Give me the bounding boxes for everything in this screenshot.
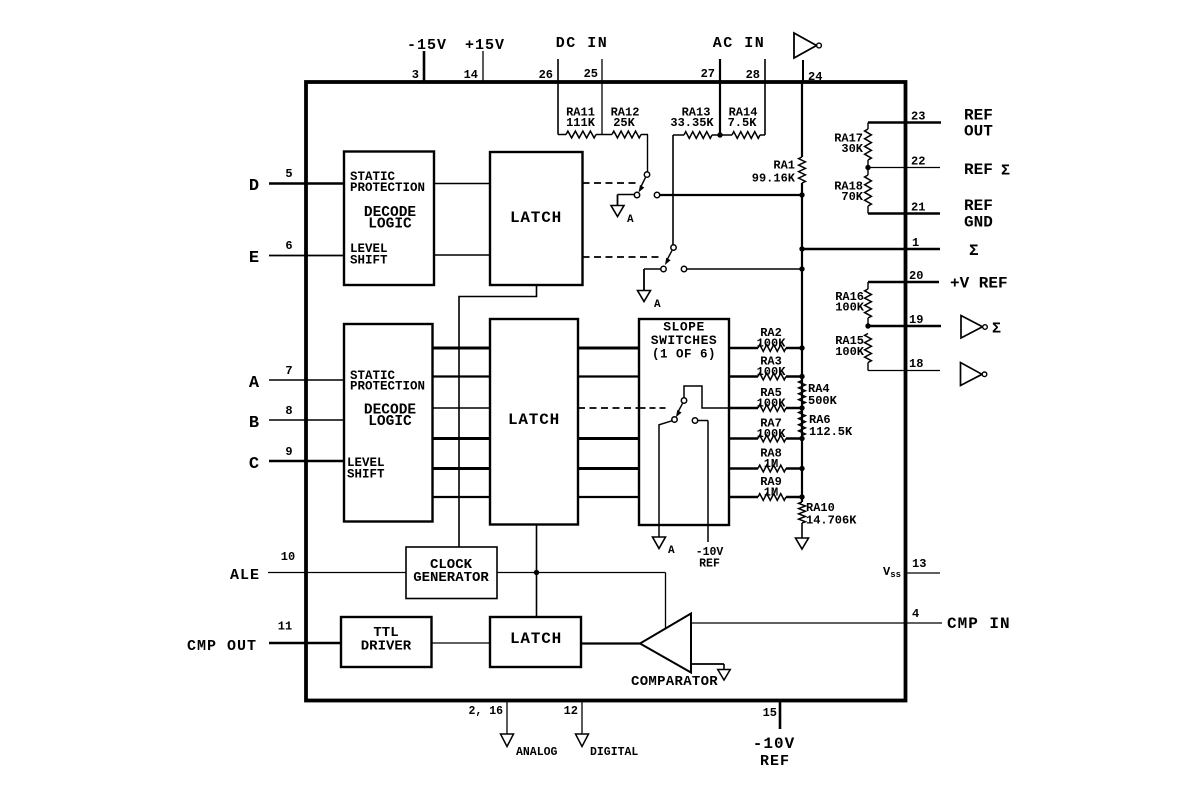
svg-text:DRIVER: DRIVER: [361, 639, 412, 655]
comparator U9: [640, 614, 691, 673]
label REF sigma: [964, 161, 1010, 180]
svg-text:9: 9: [285, 445, 292, 459]
IC boundary box: [306, 82, 906, 701]
label LEVEL SHIFT (U1): [350, 242, 388, 268]
svg-text:112.5K: 112.5K: [809, 425, 853, 439]
label RA17 30K: [834, 132, 864, 157]
switch S1 top terminal: [644, 172, 649, 177]
svg-text:18: 18: [909, 357, 923, 371]
svg-text:D: D: [249, 177, 259, 196]
svg-text:11: 11: [278, 620, 292, 634]
label RA1 99.16K: [752, 159, 796, 186]
svg-text:A: A: [249, 374, 260, 393]
resistor RA18 70K: [865, 168, 872, 214]
buffer amplifier above pin 24: [794, 33, 821, 58]
svg-text:6: 6: [285, 239, 292, 253]
svg-text:23: 23: [911, 110, 925, 124]
svg-text:REF: REF: [964, 197, 993, 215]
switch S2 pole terminal: [661, 266, 666, 271]
svg-text:AC IN: AC IN: [713, 35, 766, 52]
svg-text:2, 16: 2, 16: [468, 705, 503, 718]
wire summing bus main segment: [801, 183, 803, 502]
label -10V REF (slope switches): [696, 546, 724, 571]
wire D decode to latch: [434, 183, 490, 185]
decode logic block U1 (D/E): [344, 152, 434, 286]
svg-text:ALE: ALE: [230, 567, 260, 584]
svg-text:28: 28: [746, 68, 760, 82]
label DECODE LOGIC (U3): [364, 403, 417, 431]
svg-text:33.35K: 33.35K: [670, 116, 714, 130]
slope switch pole terminal: [672, 417, 677, 422]
wire S1 output to summing bus: [660, 194, 802, 196]
ground arrow ANALOG: [501, 734, 514, 747]
svg-text:SHIFT: SHIFT: [347, 468, 385, 482]
junction node pin27 / RA13 / RA14: [717, 132, 722, 137]
wire latch U8 to comparator output: [581, 642, 640, 644]
pin 27 stub (AC IN): [719, 59, 721, 135]
svg-text:25K: 25K: [613, 116, 635, 130]
wire bit line 1 decode to latch U4: [433, 347, 491, 350]
label LEVEL SHIFT (U3): [347, 456, 385, 482]
label RA10 14.706K: [806, 501, 857, 528]
svg-text:E: E: [249, 249, 259, 268]
svg-text:100K: 100K: [757, 427, 787, 441]
resistor RA1 99.16K: [799, 157, 806, 183]
svg-text:LATCH: LATCH: [508, 411, 560, 429]
label RA7 100K: [757, 417, 787, 442]
ground arrow A (switch S1): [611, 206, 624, 217]
wire latch U2 to clock generator: [459, 285, 537, 547]
wire summing bus top segment: [801, 83, 803, 157]
slope switch top terminal: [681, 398, 686, 403]
wire slope switch pole to ground A: [659, 421, 672, 537]
svg-text:+V REF: +V REF: [950, 275, 1008, 293]
svg-text:14: 14: [464, 68, 478, 82]
wire comparator reference to ground: [691, 664, 724, 670]
svg-text:REF: REF: [964, 161, 993, 179]
junction node S1 line / summing bus: [799, 192, 804, 197]
wire bit line 4 latch U4 to slope switches: [578, 437, 639, 440]
label RA11 111K: [566, 106, 596, 131]
wire E decode to latch: [434, 254, 490, 256]
label -10V REF (pin 15): [753, 735, 795, 770]
slope switch right terminal: [692, 418, 697, 423]
svg-text:19: 19: [909, 313, 923, 327]
pin 21 wire (REF GND): [868, 212, 940, 215]
svg-text:Σ: Σ: [992, 321, 1001, 338]
switch S2 output terminal: [681, 266, 686, 271]
label RA16 100K: [835, 290, 865, 315]
svg-text:A: A: [627, 214, 634, 226]
svg-text:30K: 30K: [841, 142, 863, 156]
svg-text:100K: 100K: [757, 397, 787, 411]
pin 3 stub (-15V): [423, 51, 426, 83]
wire ALE inside to clock generator: [306, 572, 406, 574]
junction node RA9 / summing bus: [799, 494, 804, 499]
pin 9 wire (C input): [269, 460, 344, 463]
svg-text:12: 12: [564, 704, 578, 718]
label RA9 1M: [760, 475, 782, 500]
svg-text:25: 25: [584, 67, 598, 81]
latch block U2 (upper): [490, 152, 583, 285]
svg-text:111K: 111K: [566, 116, 596, 130]
svg-text:Σ: Σ: [1001, 163, 1010, 180]
resistor RA15 100K: [865, 334, 872, 371]
svg-text:1: 1: [912, 236, 919, 250]
svg-text:22: 22: [911, 155, 925, 169]
label RA12 25K: [611, 106, 640, 131]
junction node RA16/RA15: [865, 323, 870, 328]
label STATIC PROTECTION (U1): [350, 170, 425, 195]
pin 24 stub: [802, 60, 804, 83]
pin 26 stub (DC IN): [557, 59, 559, 135]
pin 23 wire (REF OUT): [868, 121, 941, 124]
svg-text:24: 24: [808, 70, 822, 84]
pin 14 stub (+15V): [482, 51, 484, 83]
label RA5 100K: [757, 386, 787, 411]
resistor RA2 100K: [729, 345, 802, 352]
switch S1 output terminal: [654, 192, 659, 197]
label STATIC PROTECTION (U3): [350, 369, 425, 394]
junction node S2 line / summing bus: [799, 266, 804, 271]
pin 19 wire: [868, 325, 941, 328]
label RA3 100K: [757, 355, 787, 380]
switch S1 lever: [639, 178, 646, 193]
label RA2 100K: [757, 326, 787, 351]
pin 28 stub (AC IN): [764, 59, 766, 135]
wire bit line 1 latch U4 to slope switches: [578, 347, 639, 350]
pin 2,16 stub (analog ground): [506, 702, 508, 734]
pin 22 wire (REF sigma): [868, 167, 940, 169]
wire S2 output to summing bus: [687, 268, 802, 270]
resistor RA7 100K: [729, 435, 802, 442]
resistor RA3 100K: [729, 373, 802, 380]
label REF GND: [964, 197, 993, 232]
svg-text:500K: 500K: [808, 394, 838, 408]
pin 15 stub (-10V REF): [779, 702, 782, 729]
resistor RA6 112.5K: [799, 411, 806, 436]
wire latch U4 to latch U8: [536, 525, 538, 618]
svg-text:LATCH: LATCH: [510, 209, 562, 227]
switch S1 pole terminal: [634, 192, 639, 197]
resistor RA5 100K: [729, 405, 802, 412]
buffer amplifier at pin 19: [961, 316, 987, 339]
svg-text:+15V: +15V: [465, 37, 505, 54]
svg-text:1M: 1M: [764, 457, 778, 471]
wire bit line 3 decode to latch U4: [433, 407, 491, 409]
svg-text:C: C: [249, 455, 259, 474]
svg-text:A: A: [668, 545, 675, 557]
ground arrow below RA10: [796, 538, 809, 549]
svg-text:13: 13: [912, 557, 926, 571]
junction node RA8 / summing bus: [799, 466, 804, 471]
pin 5 wire (D input): [269, 182, 344, 185]
label SLOPE SWITCHES (1 OF 6): [651, 320, 717, 362]
svg-text:-15V: -15V: [407, 37, 447, 54]
wire slope switch top terminal to RA5 line: [684, 386, 729, 408]
junction node RA5 / summing bus: [799, 405, 804, 410]
svg-text:REF: REF: [699, 558, 720, 571]
svg-text:SWITCHES: SWITCHES: [651, 333, 717, 348]
latch block U8 (lower): [490, 617, 581, 667]
label RA18 70K: [834, 180, 864, 205]
ground arrow DIGITAL: [576, 734, 589, 747]
junction node sigma / summing bus: [799, 246, 804, 251]
label RA8 1M: [760, 447, 782, 472]
wire bit line 2 decode to latch U4: [433, 375, 491, 377]
wire RA12 down to switch S1: [647, 135, 649, 173]
wire clock generator to comparator strobe: [497, 573, 666, 628]
pin 1 wire (sigma output): [802, 248, 940, 251]
svg-text:3: 3: [412, 68, 419, 82]
svg-text:DIGITAL: DIGITAL: [590, 746, 638, 759]
svg-text:10: 10: [281, 550, 295, 564]
dashed control wire inside slope switches: [640, 407, 668, 409]
svg-text:100K: 100K: [835, 345, 865, 359]
junction node RA17/RA18 (REF sigma): [865, 165, 870, 170]
resistor RA9 1M: [729, 494, 802, 501]
wire S2 pole to ground: [644, 269, 661, 291]
svg-text:100K: 100K: [757, 365, 787, 379]
label TTL DRIVER: [361, 625, 412, 655]
svg-text:(1 OF 6): (1 OF 6): [652, 348, 716, 362]
resistor RA13 33.35K: [673, 132, 720, 139]
svg-text:1M: 1M: [764, 486, 778, 500]
wire bit line 5 decode to latch U4: [433, 467, 491, 470]
label CLOCK GENERATOR: [413, 557, 489, 586]
latch block U4 (middle): [490, 319, 578, 525]
dashed control wire latch U2 to switch S2: [583, 256, 662, 258]
switch S2 lever: [665, 251, 672, 266]
label DECODE LOGIC (U1): [364, 205, 417, 233]
junction node RA7 / summing bus: [799, 436, 804, 441]
pin 20 wire (+V REF): [868, 281, 939, 284]
svg-text:70K: 70K: [841, 190, 863, 204]
svg-text:LOGIC: LOGIC: [368, 217, 412, 233]
buffer amplifier at pin 18: [961, 363, 987, 386]
svg-text:20: 20: [909, 269, 923, 283]
svg-text:GND: GND: [964, 214, 993, 232]
slope switch lever: [676, 404, 683, 418]
svg-text:8: 8: [285, 404, 292, 418]
pin 7 wire (A input): [269, 379, 344, 381]
pin 6 wire (E input): [269, 255, 344, 257]
svg-text:OUT: OUT: [964, 123, 993, 141]
svg-text:B: B: [249, 414, 259, 433]
switch S2 top terminal: [671, 245, 676, 250]
svg-text:5: 5: [285, 167, 292, 181]
svg-text:A: A: [654, 299, 661, 311]
label RA13 33.35K: [670, 106, 714, 131]
junction node RA2 / summing bus: [799, 345, 804, 350]
resistor RA17 30K: [865, 123, 872, 168]
svg-text:14.706K: 14.706K: [806, 514, 857, 528]
svg-text:4: 4: [912, 607, 919, 621]
pin 10 wire (ALE input): [268, 572, 306, 574]
svg-text:DC IN: DC IN: [556, 35, 609, 52]
pin 18 wire: [868, 370, 940, 372]
svg-text:100K: 100K: [757, 337, 787, 351]
resistor RA14 7.5K: [720, 132, 765, 139]
svg-text:CMP OUT: CMP OUT: [187, 638, 257, 655]
slope switches block U5: [639, 319, 729, 525]
pin 12 stub (digital ground): [581, 702, 583, 734]
ground arrow (comparator): [718, 670, 731, 681]
svg-text:Σ: Σ: [969, 242, 979, 260]
TTL driver block U7: [341, 617, 432, 667]
dashed control wire latch U4 to slope switch: [578, 407, 639, 409]
wire bit line 6 latch U4 to slope switches: [578, 496, 639, 498]
label RA4 500K: [808, 382, 838, 408]
wire RA10 to ground arrow: [801, 523, 803, 538]
wire slope switch right terminal to -10V REF: [698, 421, 708, 543]
svg-text:COMPARATOR: COMPARATOR: [631, 674, 718, 690]
label RA14 7.5K: [728, 106, 758, 131]
resistor RA8 1M: [729, 465, 802, 472]
svg-text:-10V: -10V: [753, 735, 795, 753]
resistor RA12 25K: [602, 131, 648, 138]
svg-text:RA1: RA1: [773, 159, 795, 173]
svg-text:REF: REF: [760, 753, 790, 770]
wire bit line 5 latch U4 to slope switches: [578, 467, 639, 470]
label REF OUT: [964, 107, 993, 141]
svg-text:GENERATOR: GENERATOR: [413, 570, 489, 586]
pin 11 wire (CMP OUT): [269, 642, 341, 645]
wire S1 pole to ground: [618, 195, 635, 206]
pin 25 stub (DC IN): [601, 59, 603, 135]
svg-text:21: 21: [911, 201, 925, 215]
wire RA13 down to switch S2: [672, 135, 674, 245]
resistor RA4 500K: [799, 381, 806, 405]
pin 8 wire (B input): [269, 419, 344, 421]
label RA15 100K: [835, 334, 865, 359]
ground arrow A (slope switches): [653, 537, 666, 549]
svg-text:PROTECTION: PROTECTION: [350, 380, 425, 394]
svg-text:CMP IN: CMP IN: [947, 615, 1011, 633]
dashed control wire latch U2 to switch S1: [583, 182, 638, 184]
pin 13 wire (Vss): [906, 572, 940, 574]
clock generator block U6: [406, 547, 497, 599]
svg-text:LOGIC: LOGIC: [368, 414, 412, 430]
pin 4 wire (CMP IN): [691, 622, 942, 624]
svg-text:SHIFT: SHIFT: [350, 254, 388, 268]
resistor RA10 14.706K: [799, 502, 806, 523]
svg-text:LATCH: LATCH: [510, 630, 562, 648]
svg-text:27: 27: [701, 67, 715, 81]
wire TTL driver to latch U8: [432, 642, 491, 644]
wire bit line 2 latch U4 to slope switches: [578, 375, 639, 377]
resistor RA11 111K: [558, 131, 602, 138]
svg-text:ANALOG: ANALOG: [516, 746, 558, 759]
ground arrow A (switch S2): [638, 291, 651, 302]
resistor RA16 100K: [865, 282, 872, 326]
svg-text:7: 7: [285, 364, 292, 378]
wire bit line 4 decode to latch U4: [433, 437, 491, 440]
svg-text:26: 26: [539, 68, 553, 82]
svg-text:99.16K: 99.16K: [752, 172, 796, 186]
label RA6 112.5K: [809, 413, 853, 439]
svg-text:7.5K: 7.5K: [728, 116, 758, 130]
decode logic block U3 (A/B/C): [344, 324, 433, 522]
svg-text:15: 15: [763, 706, 777, 720]
junction node ALE line / latch wire: [534, 570, 539, 575]
svg-text:PROTECTION: PROTECTION: [350, 181, 425, 195]
wire bit line 6 decode to latch U4: [433, 496, 491, 498]
svg-text:100K: 100K: [835, 301, 865, 315]
junction node RA3 / summing bus: [799, 374, 804, 379]
